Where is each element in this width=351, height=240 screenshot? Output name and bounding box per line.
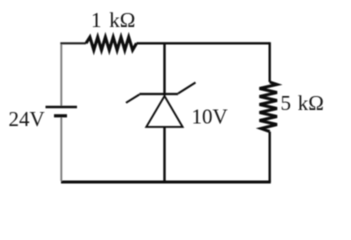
svg-text:10V: 10V — [192, 105, 228, 129]
svg-text:5 kΩ: 5 kΩ — [281, 91, 324, 115]
svg-text:24V: 24V — [9, 107, 45, 131]
svg-text:1 kΩ: 1 kΩ — [91, 8, 135, 32]
